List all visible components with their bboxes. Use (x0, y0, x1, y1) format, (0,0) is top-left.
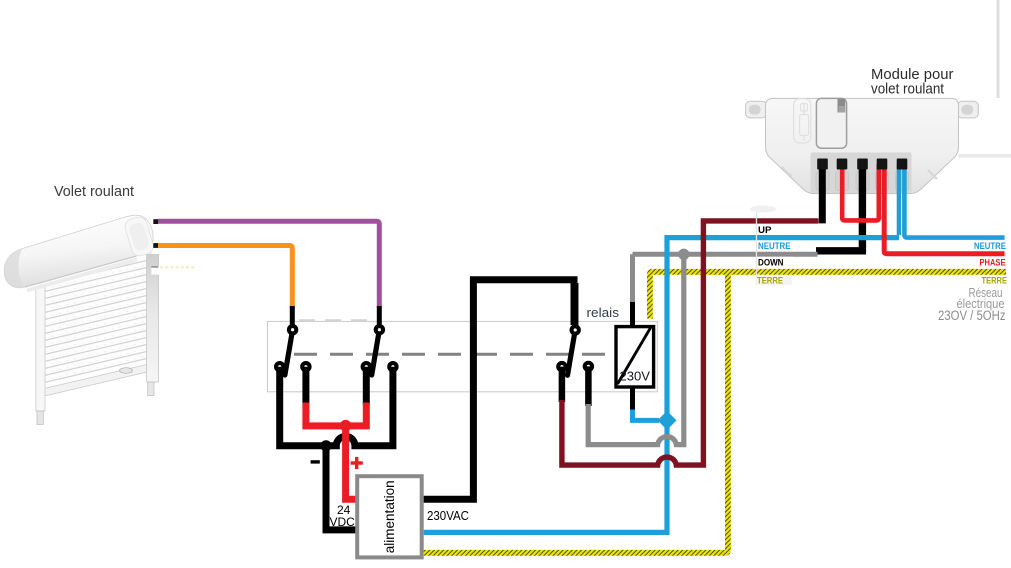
label UP (757, 224, 782, 236)
label DOWN (757, 257, 793, 269)
junction: DOWN node (678, 249, 689, 260)
svg-text:NEUTRE: NEUTRE (974, 241, 1006, 252)
svg-text:alimentation: alimentation (382, 480, 397, 553)
junction: minus node (320, 440, 331, 451)
switch S1a (orange pole) (274, 306, 312, 375)
wire: purple (shutter to switch S1b) (158, 221, 379, 307)
wire: red (switch NC contacts to PSU plus) (302, 367, 309, 405)
label TERRE (left) (756, 275, 792, 286)
mechanical link (dashed) (294, 353, 612, 356)
wire: grey DOWN horizontal (633, 252, 818, 257)
label backdrop strip (756, 212, 757, 285)
svg-text:relais: relais (587, 306, 620, 320)
svg-text:DOWN: DOWN (758, 257, 784, 268)
wire: maroon UP net (S2 to module T1) (559, 367, 566, 402)
svg-text:TERRE: TERRE (757, 276, 783, 287)
label Reseau electrique 230V/50Hz (938, 285, 1006, 323)
junction: NEUTRE node (diamond) (658, 411, 677, 430)
wire: orange (shutter to switch S1a) (158, 246, 292, 308)
wire: grey branch (DOWN node to S2 contact) (585, 366, 592, 406)
mechanical link (upper, faint) (299, 319, 375, 321)
svg-text:230VAC: 230VAC (427, 509, 469, 523)
svg-text:PHASE: PHASE (980, 257, 1006, 268)
junction: plus node (340, 420, 352, 432)
svg-text:NEUTRE: NEUTRE (758, 241, 791, 252)
module pour volet roulant (body) (746, 98, 979, 212)
svg-text:230V: 230V (620, 369, 651, 384)
label NEUTRE (left) (757, 241, 792, 253)
wire: grey drop to relay (630, 254, 635, 303)
wire: black (switch commons to PSU minus) (280, 367, 393, 446)
terminal: shutter orange lead (153, 243, 158, 248)
wire: module T3 black + DOWN black (816, 164, 862, 251)
enclosure: switch bank box (268, 321, 658, 391)
wire: red PHASE net (884, 164, 1004, 254)
wire: red module T2-T4 loop (842, 164, 879, 220)
switch S2 (relay drive pole) (556, 283, 594, 375)
switch S1b (purple pole) (361, 306, 399, 375)
wire: blue NEUTRE net (424, 238, 899, 533)
faint terre stub (160, 266, 196, 268)
roller shutter (volet roulant) (4, 215, 158, 424)
wire: yellow TERRE net (650, 272, 1006, 319)
label Module pour volet roulant (871, 66, 954, 98)
unused terminal patch (151, 266, 159, 274)
relay K1 (616, 327, 654, 387)
wire: black 230VAC (PSU to switch S2) (424, 280, 574, 499)
faint artifact lines (959, 154, 1011, 158)
svg-text:VDC: VDC (330, 515, 356, 529)
svg-text:23OV / 5OHz: 23OV / 5OHz (938, 308, 1006, 323)
svg-text:UP: UP (758, 225, 772, 236)
power supply (alimentation) (357, 476, 422, 557)
label plus (351, 457, 363, 469)
wire: module T1 black (819, 164, 826, 223)
terminal: shutter purple lead (153, 219, 158, 224)
svg-text:volet roulant: volet roulant (871, 81, 945, 98)
wire: module T5 blue pair (897, 164, 901, 235)
svg-text:Volet roulant: Volet roulant (54, 184, 134, 200)
module terminals 1-5 (817, 159, 828, 170)
label minus (311, 460, 320, 463)
